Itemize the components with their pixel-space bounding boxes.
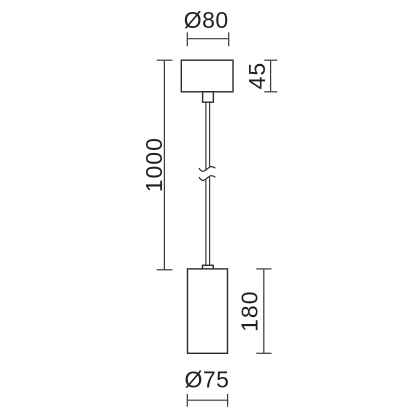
svg-text:45: 45	[244, 62, 270, 90]
dimension line 1000	[157, 60, 173, 270]
break symbol upper squiggle	[199, 167, 215, 172]
svg-text:Ø80: Ø80	[184, 7, 229, 33]
break symbol lower squiggle	[199, 176, 215, 181]
ceiling canopy	[181, 60, 233, 92]
dimension line 180	[256, 269, 271, 353]
lamp body cylinder	[188, 269, 228, 353]
canopy stem	[203, 92, 214, 102]
svg-text:180: 180	[236, 291, 262, 332]
suspension cable upper segment left wire	[205, 102, 207, 171]
svg-text:1000: 1000	[141, 137, 167, 192]
dimension line Ø75	[187, 394, 227, 407]
dimension line Ø80	[187, 32, 228, 46]
svg-text:Ø75: Ø75	[185, 366, 230, 392]
suspension cable lower segment left wire	[205, 180, 207, 266]
dimension line 45	[264, 60, 277, 92]
suspension cable lower segment right wire	[209, 177, 211, 265]
cord grip	[203, 265, 214, 270]
suspension cable upper segment right wire	[209, 102, 211, 167]
